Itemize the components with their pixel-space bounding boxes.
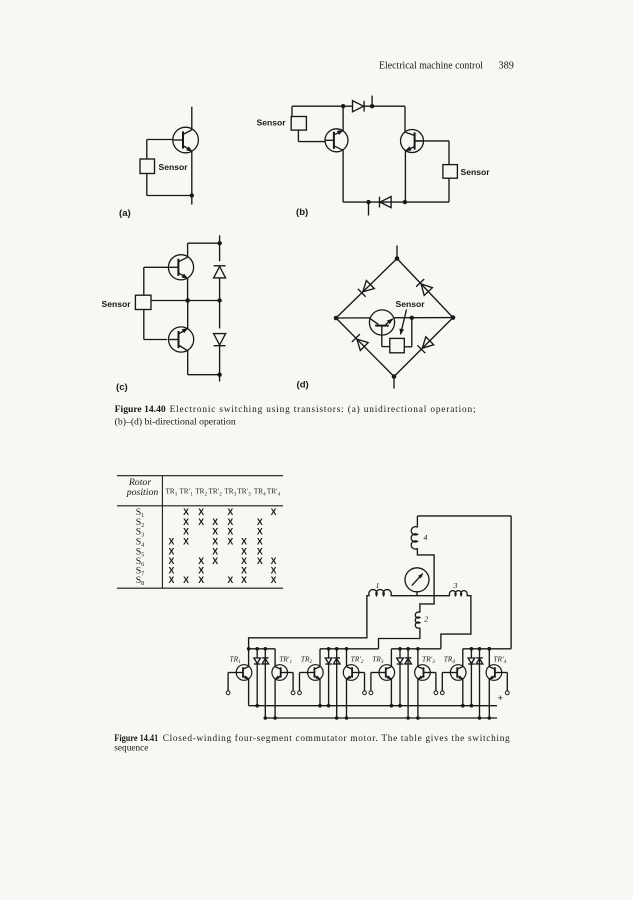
svg-text:(b)–(d) bi-directional operati: (b)–(d) bi-directional operation (115, 416, 236, 427)
svg-text:X: X (212, 556, 218, 566)
svg-text:X: X (168, 575, 174, 585)
svg-text:X: X (257, 556, 263, 566)
svg-text:X: X (227, 526, 233, 536)
svg-text:X: X (212, 526, 218, 536)
svg-text:X: X (257, 546, 263, 556)
svg-text:(a): (a) (119, 208, 131, 219)
svg-text:X: X (271, 507, 277, 517)
svg-text:position: position (126, 487, 159, 498)
svg-text:X: X (212, 546, 218, 556)
svg-text:+: + (498, 693, 504, 704)
svg-text:X: X (257, 526, 263, 536)
svg-text:Figure 14.40: Figure 14.40 (115, 405, 166, 415)
svg-text:X: X (241, 536, 247, 546)
svg-text:2: 2 (424, 615, 428, 624)
svg-text:X: X (198, 565, 204, 575)
svg-text:X: X (168, 556, 174, 566)
svg-text:X: X (257, 536, 263, 546)
svg-text:X: X (198, 575, 204, 585)
svg-text:X: X (168, 536, 174, 546)
svg-text:X: X (183, 517, 189, 527)
svg-text:Sensor: Sensor (396, 299, 426, 309)
svg-text:X: X (227, 536, 233, 546)
svg-text:X: X (227, 517, 233, 527)
svg-text:sequence: sequence (114, 744, 148, 754)
svg-text:X: X (271, 556, 277, 566)
svg-text:3: 3 (453, 581, 458, 590)
svg-text:X: X (227, 507, 233, 517)
svg-text:1: 1 (376, 581, 380, 590)
svg-text:X: X (257, 517, 263, 527)
svg-text:X: X (183, 536, 189, 546)
svg-text:X: X (183, 575, 189, 585)
svg-text:389: 389 (499, 61, 514, 72)
svg-text:4: 4 (424, 533, 428, 542)
svg-text:Figure 14.41: Figure 14.41 (114, 734, 158, 744)
svg-text:Sensor: Sensor (159, 162, 189, 172)
svg-text:(b): (b) (296, 207, 308, 218)
svg-text:X: X (241, 556, 247, 566)
svg-text:X: X (271, 575, 277, 585)
svg-text:Electronic switching using tra: Electronic switching using transistors: … (170, 404, 476, 415)
svg-text:X: X (241, 575, 247, 585)
svg-text:(d): (d) (297, 380, 309, 391)
svg-text:X: X (198, 507, 204, 517)
svg-text:Sensor: Sensor (461, 167, 491, 177)
svg-text:Sensor: Sensor (102, 299, 132, 309)
svg-text:X: X (241, 565, 247, 575)
svg-text:X: X (271, 565, 277, 575)
svg-text:X: X (168, 546, 174, 556)
svg-text:X: X (227, 575, 233, 585)
svg-text:Sensor: Sensor (257, 118, 287, 128)
svg-text:X: X (198, 556, 204, 566)
svg-text:X: X (241, 546, 247, 556)
svg-text:X: X (183, 507, 189, 517)
svg-text:(c): (c) (116, 382, 128, 393)
svg-text:Electrical machine control: Electrical machine control (379, 61, 483, 72)
svg-text:Closed-winding four-segment co: Closed-winding four-segment commutator m… (163, 733, 510, 744)
svg-text:X: X (198, 517, 204, 527)
svg-text:X: X (212, 517, 218, 527)
svg-text:X: X (183, 526, 189, 536)
svg-text:X: X (168, 565, 174, 575)
svg-text:X: X (212, 536, 218, 546)
